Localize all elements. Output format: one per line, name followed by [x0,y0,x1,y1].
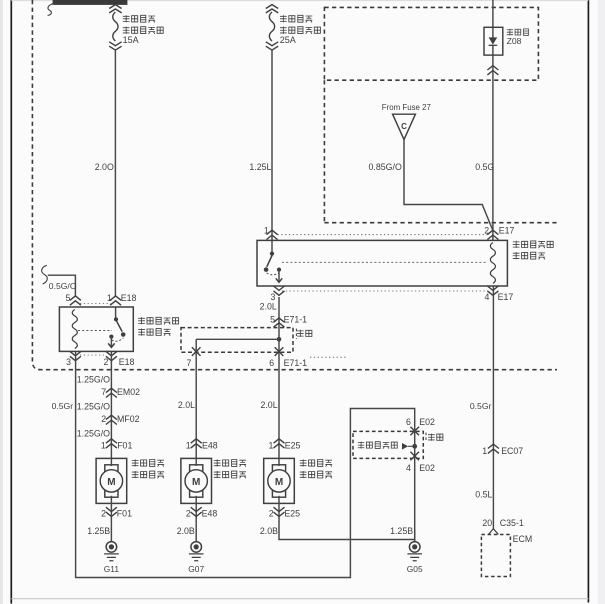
connector 20 C35-1 [482,518,523,528]
wire label 1.25G/O a [77,374,110,384]
ground G11 [104,518,120,574]
wire label 2.0B right [260,526,278,536]
svg-text:1: 1 [107,293,112,303]
dashed boundary right horizontal [324,222,556,224]
main relay pin 1 [264,226,278,240]
svg-text:1.25G/O: 1.25G/O [77,374,110,384]
svg-text:E17: E17 [498,292,514,302]
svg-text:3: 3 [66,357,71,367]
aux relay pin 3 [66,351,81,367]
left border line [10,0,12,604]
connector 2 E25 (left condenser fan) [269,503,300,518]
svg-text:E18: E18 [121,293,137,303]
wire label 0.5G [475,162,494,172]
relay E18 coil [72,310,77,349]
svg-text:0.85G/O: 0.85G/O [369,162,402,172]
wire 0.5G/O to relay E18 pin5 [48,275,76,296]
svg-text:1.25L: 1.25L [249,162,271,172]
continuation curl under bus bar [48,4,54,16]
svg-text:E17: E17 [499,226,515,236]
bus bar (from fuse box) [53,0,128,5]
wire fuse F2 to relay E17 pin1 [271,50,273,240]
relay E18 actuator dashed link [78,330,112,332]
svg-text:1.25B: 1.25B [87,526,110,536]
svg-text:G07: G07 [188,564,204,574]
wire label 1.25L [249,162,271,172]
fuse F1 label [123,15,164,45]
dashed harness boundary left [32,0,557,370]
main relay box E17 [257,240,507,286]
bottom border line [11,598,588,600]
aux relay pin 2 E18 [103,351,134,367]
connector 1 F01 (aux condenser fan) [101,439,133,451]
svg-text:MF02: MF02 [117,414,140,424]
ECM label [513,534,533,544]
svg-text:M: M [192,477,200,488]
svg-text:C35-1: C35-1 [500,518,524,528]
svg-text:E02: E02 [419,417,435,427]
main relay pin 4 E17 [484,286,513,302]
svg-text:M: M [107,477,115,488]
svg-text:2: 2 [101,414,106,424]
svg-text:2.0O: 2.0O [95,162,114,172]
svg-text:5: 5 [270,315,275,325]
diode label Z08 [507,29,529,46]
wire battery to diode Z08 [492,0,494,240]
ground G05 [407,530,423,574]
main relay pin 2 E17 [484,226,514,240]
svg-text:ECM: ECM [513,534,533,544]
svg-text:1: 1 [264,226,269,236]
svg-text:E25: E25 [285,440,301,450]
E02 joint label [426,433,443,442]
dashed box top-right (diode circuit) [324,7,538,80]
svg-text:2.0L: 2.0L [178,400,195,410]
ECM dashed box [481,535,510,577]
svg-text:E71-1: E71-1 [284,315,308,325]
motor E25 name label [300,459,332,478]
wire label 1.25B right [390,526,413,536]
connector 2 E48 (right condenser fan) [186,503,217,518]
svg-text:E02: E02 [419,463,435,473]
svg-text:E48: E48 [202,508,218,518]
connector 6 E02 [406,417,435,435]
motor E48 name label [214,459,246,478]
connector below diode [487,66,498,75]
continuation curl 0.5G/O [42,265,48,284]
svg-text:2.0L: 2.0L [260,400,277,410]
svg-text:4: 4 [484,292,489,302]
svg-text:1: 1 [101,440,106,450]
dotted strip relay E18 bottom [80,354,106,356]
wire branch to motor E48 [196,339,279,458]
svg-text:4: 4 [406,463,411,473]
wire relay E17 pin3 to motors [278,297,280,458]
wire label 0.5G/O [49,281,77,291]
fuse F2 label [280,15,321,45]
dotted strip E71-1 [310,356,346,358]
svg-text:EM02: EM02 [117,387,140,397]
wire label 2.0L left [178,400,195,410]
connector 1 E25 (left condenser fan) [268,439,300,451]
svg-text:0.5G: 0.5G [475,162,494,172]
dotted strip relay E17 top [278,234,489,236]
svg-text:2: 2 [269,508,274,518]
wire label 1.25B [87,526,110,536]
connector box E71-1 dashed [181,328,293,353]
connector 6 E71-1 [269,347,307,368]
diode Z08 symbol [489,37,498,45]
wire label 0.5Gr left [52,401,74,411]
right border line [587,0,589,603]
svg-text:M: M [275,477,283,488]
wire label 2.0B left [177,526,195,536]
wire label 0.5Gr right [470,401,492,411]
wire fuse27 to relay pin2 [404,140,493,231]
triangle C (from fuse 27) [393,114,416,139]
svg-text:E25: E25 [284,508,300,518]
svg-text:0.5G/O: 0.5G/O [49,281,77,291]
svg-text:From Fuse 27: From Fuse 27 [382,103,431,112]
motor F01 name label [132,459,164,478]
svg-text:5: 5 [65,293,70,303]
dotted strip relay E17 bottom [282,290,488,292]
motor F01 (aux condenser fan) box [96,458,127,503]
aux relay pin 1 E18 [107,293,137,305]
main relay pin 3 [270,286,284,302]
wire label 0.5L [475,490,492,500]
svg-text:15A: 15A [123,35,139,45]
connector 1 EC07 [482,444,523,456]
wire label 2.0L top [260,301,277,311]
aux relay name label [138,317,178,336]
svg-text:6: 6 [406,417,411,427]
svg-text:1.25G/O: 1.25G/O [77,428,110,438]
relay E17 coil [490,243,495,284]
aux relay box E18 [59,307,133,351]
ECM pin chevron [488,529,498,535]
dotted strip relay E18 top [80,303,111,305]
svg-text:Z08: Z08 [507,36,522,46]
dashed boundary right vertical [323,80,325,223]
connector 2 F01 (aux condenser fan) [101,503,132,518]
svg-text:G05: G05 [407,564,423,574]
svg-text:G11: G11 [104,564,120,574]
svg-text:F01: F01 [117,440,132,450]
connector 2 MF02 [101,414,139,425]
wire relay E18 pin3 to E02 [76,351,415,577]
wire label 0.85G/O [369,162,402,172]
fuse F2 (main condenser fan fuse 25A) [266,5,278,51]
wire label 2.0L right [260,400,277,410]
svg-text:2.0L: 2.0L [260,301,277,311]
top border line [11,0,588,2]
svg-text:2: 2 [103,357,108,367]
svg-text:0.5L: 0.5L [475,490,492,500]
diode Z08 box [484,27,503,55]
fuse F1 (aux condenser fan fuse 15A) [109,5,121,51]
svg-text:6: 6 [269,358,274,368]
motor E25 (left condenser fan) box [264,458,295,503]
relay E17 switch [264,240,282,282]
svg-text:20: 20 [482,518,492,528]
relay E18 switch [108,307,125,347]
svg-text:1.25G/O: 1.25G/O [77,401,110,411]
wire motor E25 to ground G05 [279,518,415,540]
wire label 2.0O [95,162,114,172]
wire relay E18 pin2 to motor F01 [110,351,112,458]
svg-text:25A: 25A [280,35,296,45]
aux relay pin 5 [65,293,80,305]
svg-text:F01: F01 [117,508,132,518]
svg-text:7: 7 [101,387,106,397]
connector 4 E02 [406,452,435,473]
E02 see-ground-distribution label [358,442,417,450]
junction node E71-1 [277,337,282,342]
connector 5 E71-1 [270,315,307,328]
svg-text:2.0B: 2.0B [260,526,278,536]
relay E17 actuator dashed link [282,261,486,263]
svg-text:2: 2 [484,226,489,236]
wire label 1.25G/O b [77,401,110,411]
main relay name label [513,241,553,260]
motor E48 (right condenser fan) box [181,458,212,503]
svg-text:E71-1: E71-1 [284,358,308,368]
svg-text:E18: E18 [119,357,135,367]
From Fuse 27 label [382,103,431,112]
svg-text:0.5Gr: 0.5Gr [470,401,492,411]
connector 7 E71-1 [186,347,200,368]
wire label 1.25G/O c [77,428,110,438]
svg-text:2: 2 [101,508,106,518]
E71-1 joint label [296,329,312,339]
svg-text:1: 1 [268,440,273,450]
svg-text:C: C [401,122,407,131]
svg-text:1.25B: 1.25B [390,526,413,536]
svg-text:2: 2 [186,508,191,518]
wire relay E17 pin4 to ECM [492,286,494,529]
svg-text:1: 1 [186,440,191,450]
connector 7 EM02 [101,387,140,398]
svg-text:E48: E48 [202,440,218,450]
svg-text:EC07: EC07 [501,446,523,456]
ground G07 [188,518,204,574]
svg-text:0.5Gr: 0.5Gr [52,401,74,411]
connector 1 E48 (right condenser fan) [186,439,218,451]
svg-text:2.0B: 2.0B [177,526,195,536]
svg-text:7: 7 [186,358,191,368]
connector box E02 dashed [353,431,423,458]
svg-text:1: 1 [482,446,487,456]
wire fuse F1 to relay E18 pin1 [114,50,116,296]
